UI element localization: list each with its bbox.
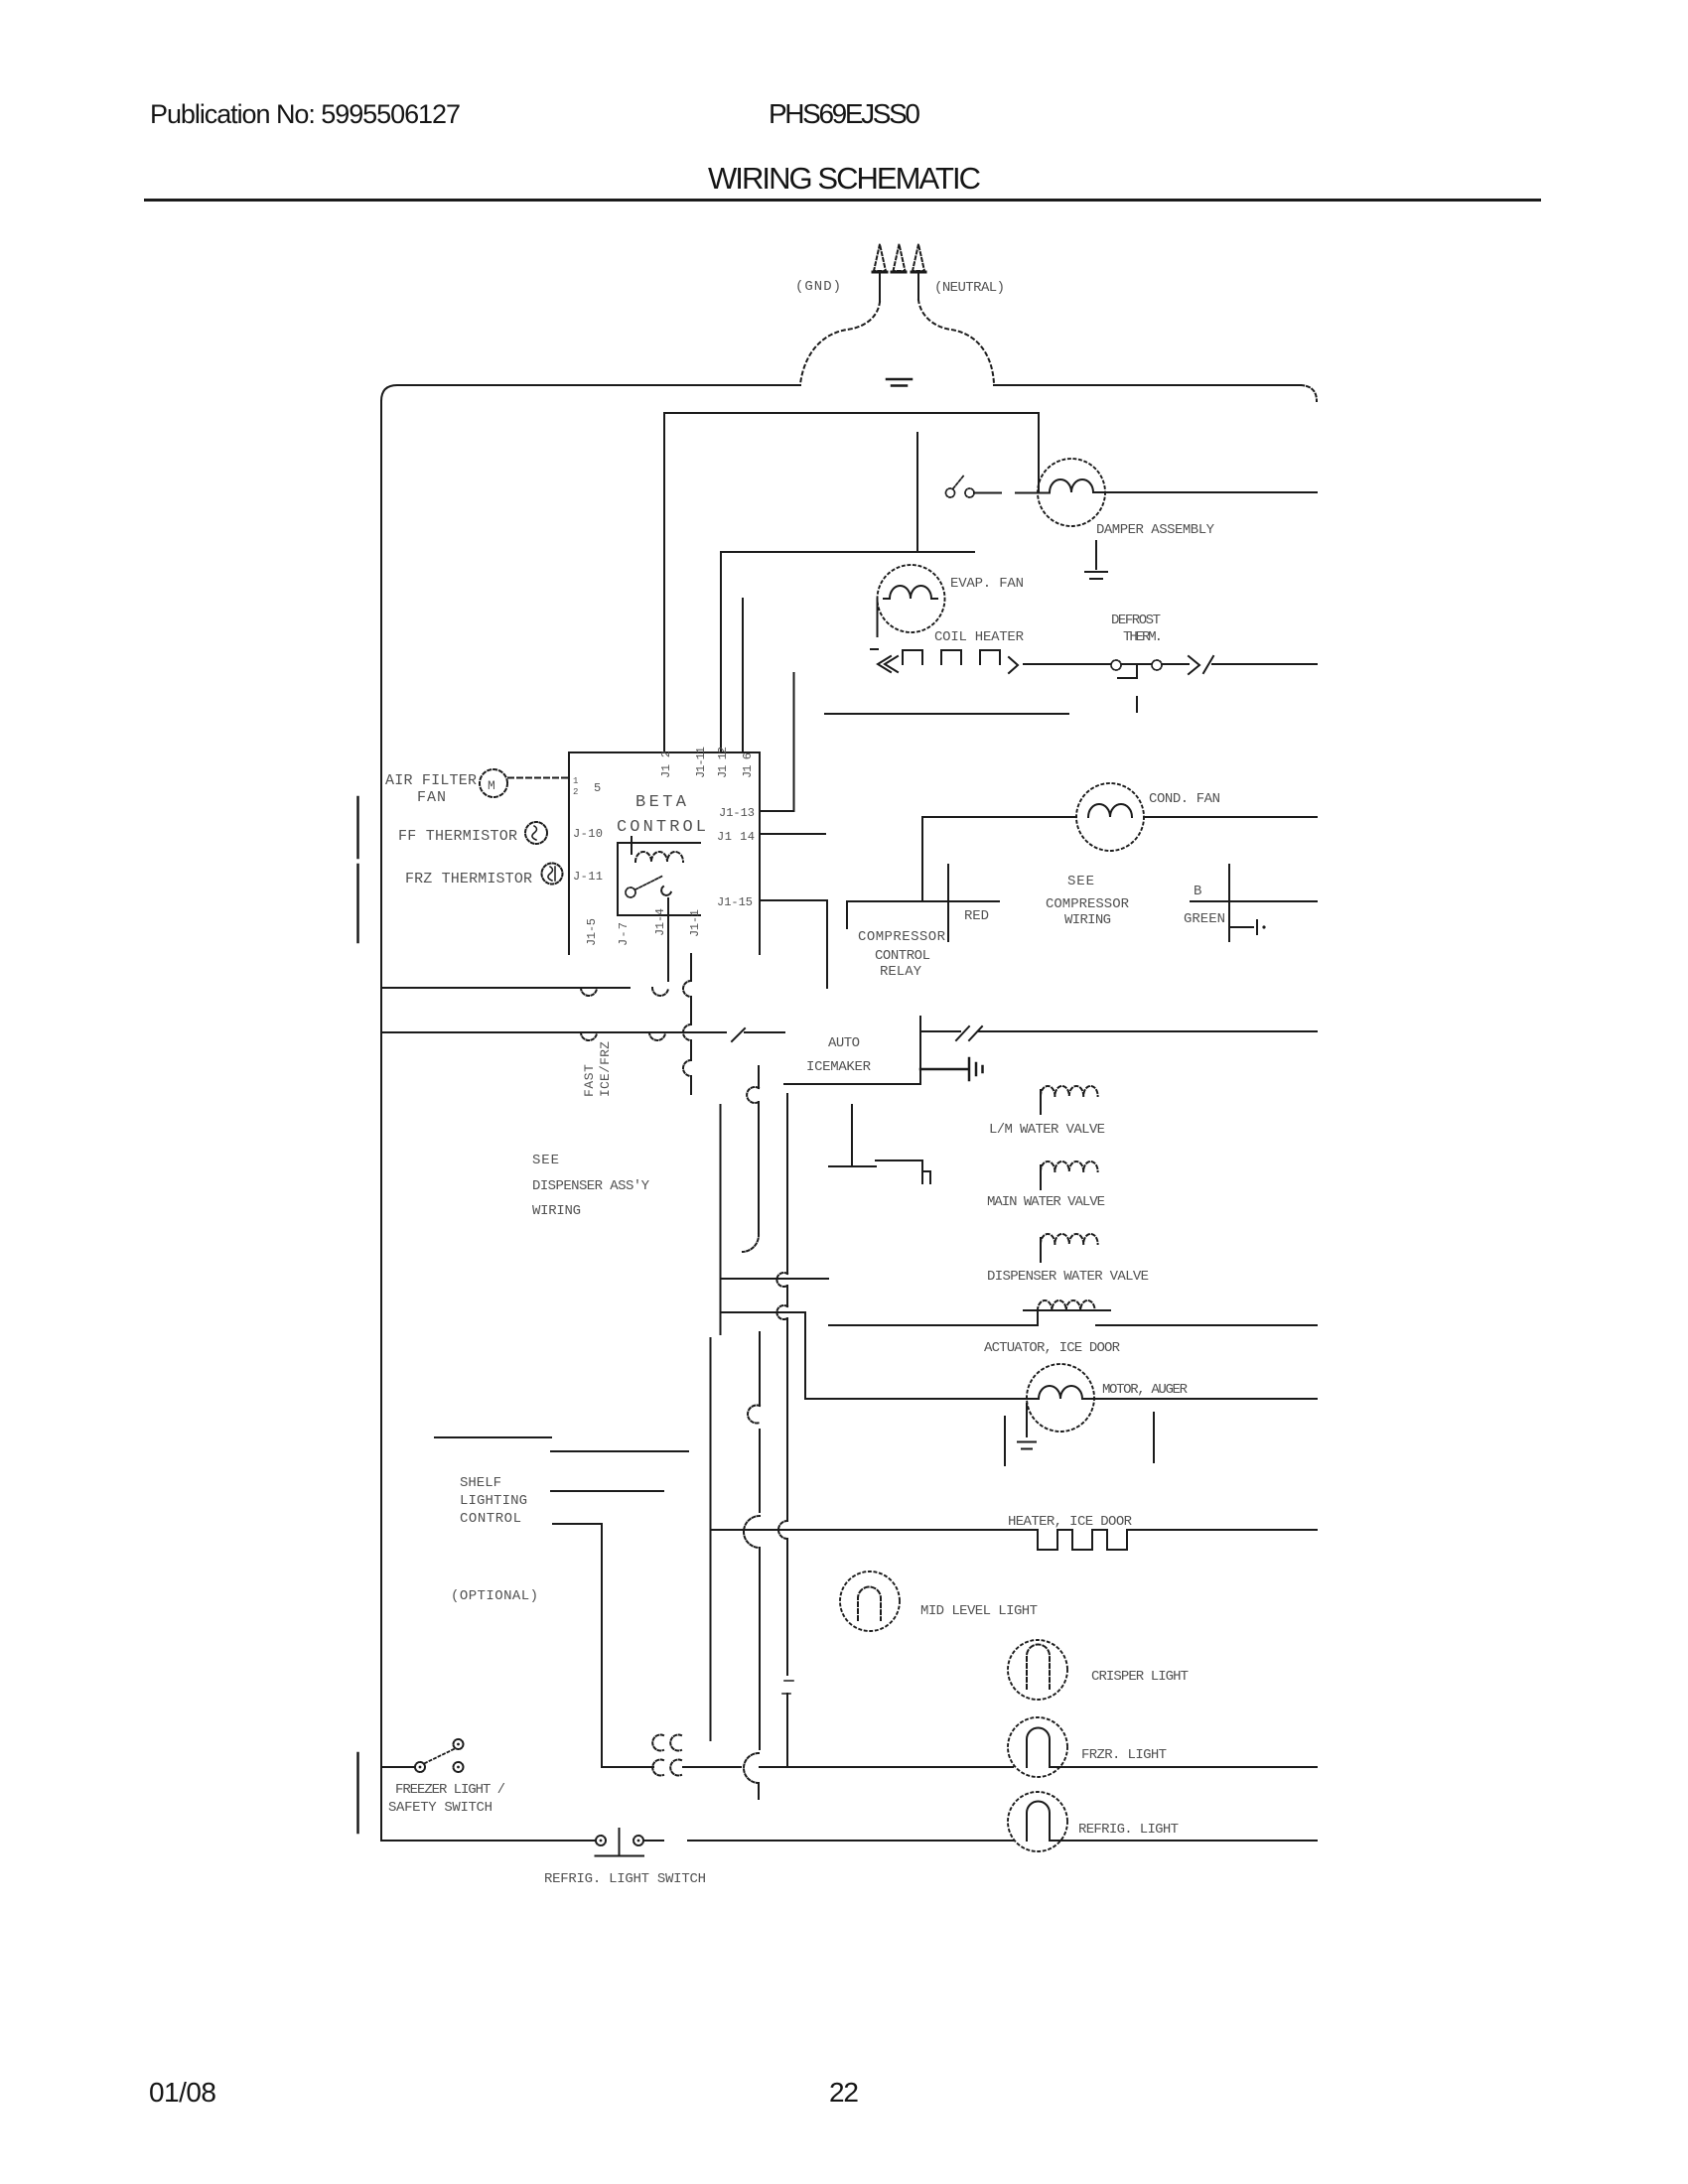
wire cond fan to right edge bbox=[1144, 816, 1317, 818]
svg-text:J1 2: J1 2 bbox=[659, 751, 673, 778]
svg-text:MID LEVEL LIGHT: MID LEVEL LIGHT bbox=[920, 1603, 1038, 1619]
svg-text:FREEZER LIGHT /: FREEZER LIGHT / bbox=[395, 1782, 505, 1798]
wire drop to BETA J1-6 bbox=[742, 599, 744, 752]
svg-text:BETA: BETA bbox=[635, 793, 687, 812]
svg-text:AIR FILTER: AIR FILTER bbox=[385, 772, 477, 789]
svg-text:CRISPER LIGHT: CRISPER LIGHT bbox=[1091, 1669, 1189, 1685]
motor auger (dotted circle + coil) bbox=[1027, 1364, 1094, 1432]
wire auger flank stubs bbox=[1005, 1413, 1154, 1465]
ground motor auger bbox=[1018, 1404, 1036, 1449]
power plug prong center bbox=[894, 244, 906, 271]
motor damper assembly (dotted circle + coil) bbox=[1038, 459, 1105, 526]
svg-text:ACTUATOR, ICE DOOR: ACTUATOR, ICE DOOR bbox=[984, 1340, 1121, 1356]
wire evap fan lead bbox=[877, 599, 879, 636]
svg-text:J1-4: J1-4 bbox=[653, 908, 667, 936]
wire cond fan feed bbox=[922, 816, 1076, 818]
svg-text:J1 12: J1 12 bbox=[716, 747, 730, 778]
wire outer box top edge left of plug bbox=[381, 385, 800, 401]
wire auger row bbox=[805, 1398, 1317, 1400]
node connector arcs x666-684 bbox=[652, 1735, 681, 1751]
wire actuator row y1335 bbox=[829, 1324, 1317, 1326]
svg-text:WIRING: WIRING bbox=[1064, 912, 1111, 928]
lamp crisper light bbox=[1008, 1640, 1067, 1700]
wire plug cord left (dashed) bbox=[800, 302, 880, 384]
svg-text:ICE/FRZ: ICE/FRZ bbox=[598, 1041, 613, 1097]
node connector arcs on rail 1 bbox=[581, 988, 597, 996]
wire bus riser x764 upper bbox=[758, 1066, 760, 1234]
svg-text:J1-15: J1-15 bbox=[717, 895, 753, 909]
svg-text:DISPENSER ASS'Y: DISPENSER ASS'Y bbox=[532, 1178, 650, 1194]
wire icemaker bottom bbox=[784, 1083, 920, 1085]
wire BETA J1-14 bbox=[760, 833, 825, 835]
wire bus riser x765 mid bbox=[759, 1332, 761, 1749]
svg-text:J-10: J-10 bbox=[573, 827, 603, 841]
svg-text:(NEUTRAL): (NEUTRAL) bbox=[934, 280, 1005, 296]
wire bus riser x725 with taps bbox=[720, 1105, 722, 1334]
svg-text:J1 14: J1 14 bbox=[717, 830, 755, 844]
wire plug right lead bbox=[917, 274, 919, 300]
svg-text:FAN: FAN bbox=[417, 789, 446, 806]
switch freezer light safety bbox=[381, 1766, 414, 1768]
svg-text:COMPRESSOR: COMPRESSOR bbox=[1046, 896, 1130, 912]
svg-text:HEATER, ICE DOOR: HEATER, ICE DOOR bbox=[1008, 1514, 1133, 1530]
svg-text:RED: RED bbox=[964, 908, 989, 924]
wire BETA J1-15 bbox=[760, 900, 827, 988]
wire plug left lead bbox=[879, 274, 881, 302]
wire rail 1 y995 bbox=[381, 987, 630, 989]
wire bus riser x715 lower bbox=[710, 1338, 712, 1740]
svg-text:AUTO: AUTO bbox=[828, 1035, 860, 1051]
wire through actuator coil bbox=[1024, 1309, 1110, 1311]
svg-text:DISPENSER WATER VALVE: DISPENSER WATER VALVE bbox=[987, 1269, 1149, 1285]
wire rail A horizontal y416 bbox=[664, 412, 1039, 414]
switch relay contact bbox=[626, 887, 635, 897]
power plug prong GND (dashed triangle) bbox=[874, 244, 886, 271]
svg-text:J1 6: J1 6 bbox=[741, 752, 755, 778]
svg-text:REFRIG. LIGHT: REFRIG. LIGHT bbox=[1078, 1822, 1179, 1838]
svg-text:J1-5: J1-5 bbox=[585, 918, 599, 946]
svg-text:CONTROL: CONTROL bbox=[875, 948, 930, 964]
icemaker auto block bbox=[919, 1017, 921, 1084]
lamp refrigerator light bbox=[1008, 1792, 1067, 1851]
wire tap y1322 to auger feed bbox=[721, 1312, 806, 1399]
svg-text:DAMPER ASSEMBLY: DAMPER ASSEMBLY bbox=[1096, 522, 1215, 538]
node connector arcs on rail 2 bbox=[581, 1032, 597, 1040]
ground symbol at plug bbox=[887, 379, 912, 386]
svg-text:(OPTIONAL): (OPTIONAL) bbox=[451, 1588, 538, 1604]
svg-text:MOTOR, AUGER: MOTOR, AUGER bbox=[1102, 1382, 1189, 1398]
header rule bbox=[144, 199, 1541, 202]
thermistor FF (dashed circle) bbox=[525, 822, 547, 844]
solenoid actuator ice door (dashed coil) bbox=[1038, 1300, 1095, 1310]
wire freezer light row y1780 bbox=[602, 1766, 1317, 1768]
wire BETA J1-1 drop with connector hops bbox=[690, 954, 692, 1094]
switch defrost thermostat bbox=[1111, 660, 1121, 670]
svg-text:2: 2 bbox=[573, 787, 578, 797]
svg-text:COMPRESSOR: COMPRESSOR bbox=[858, 929, 946, 945]
wire heater to defrost thermostat bbox=[1024, 663, 1110, 665]
wire rail A right drop to damper bbox=[1038, 413, 1040, 492]
switch break on rail 2 bbox=[732, 1028, 745, 1041]
thermistor FRZ (dashed circle) bbox=[542, 864, 563, 885]
margin tick marks left bbox=[356, 797, 359, 1833]
svg-text:EVAP. FAN: EVAP. FAN bbox=[950, 576, 1024, 592]
svg-text:COIL HEATER: COIL HEATER bbox=[934, 629, 1025, 645]
motor condenser fan (dotted circle + coil) bbox=[1076, 783, 1144, 851]
svg-text:COND. FAN: COND. FAN bbox=[1149, 791, 1220, 807]
wire bus riser x793 with hop arcs bbox=[786, 1094, 788, 1767]
svg-text:REFRIG. LIGHT SWITCH: REFRIG. LIGHT SWITCH bbox=[544, 1871, 706, 1887]
wire heater return segment bbox=[825, 713, 1068, 715]
wire switch to damper bbox=[974, 492, 1050, 494]
wire outer box top edge right of plug bbox=[994, 384, 1301, 386]
svg-text:FRZR. LIGHT: FRZR. LIGHT bbox=[1081, 1747, 1167, 1763]
svg-text:SHELF: SHELF bbox=[460, 1475, 501, 1491]
svg-text:L/M WATER VALVE: L/M WATER VALVE bbox=[989, 1122, 1105, 1138]
svg-text:J1-1: J1-1 bbox=[688, 909, 702, 937]
svg-text:Publication No: 5995506127: Publication No: 5995506127 bbox=[150, 99, 461, 129]
svg-text:(GND): (GND) bbox=[795, 279, 841, 295]
wire compressor green jumper bbox=[1191, 865, 1317, 941]
svg-text:1: 1 bbox=[573, 776, 578, 786]
icemaker tee symbol bbox=[829, 1105, 876, 1166]
wire rail B horizontal y556 bbox=[721, 551, 974, 553]
heater ice door element bbox=[711, 1530, 1318, 1550]
icemaker step bracket bbox=[876, 1160, 930, 1183]
svg-text:PHS69EJSS0: PHS69EJSS0 bbox=[769, 98, 920, 129]
svg-text:DEFROST: DEFROST bbox=[1111, 613, 1161, 628]
svg-text:SAFETY SWITCH: SAFETY SWITCH bbox=[388, 1800, 492, 1816]
svg-text:5: 5 bbox=[594, 781, 601, 795]
power plug prong NEUTRAL bbox=[913, 244, 924, 271]
wire plug cord right (dashed) bbox=[918, 300, 994, 384]
wire stub vertical x924 bbox=[916, 433, 918, 552]
svg-text:J-7: J-7 bbox=[617, 922, 631, 946]
coil relay (dashed loops) bbox=[635, 852, 683, 862]
svg-text:22: 22 bbox=[829, 2077, 859, 2108]
svg-text:CONTROL: CONTROL bbox=[460, 1511, 521, 1527]
wire relay switch down to rail 1 bbox=[667, 898, 669, 981]
connector compressor green terminal bbox=[1229, 920, 1257, 934]
wire rail A left drop to BETA J1-2 bbox=[663, 413, 665, 752]
svg-text:FRZ THERMISTOR: FRZ THERMISTOR bbox=[405, 871, 532, 887]
wire damper to right edge bbox=[1093, 491, 1317, 493]
svg-text:FAST: FAST bbox=[582, 1064, 597, 1097]
svg-text:LIGHTING: LIGHTING bbox=[460, 1493, 527, 1509]
wire rail B drop to BETA J1-12 bbox=[720, 552, 722, 752]
svg-text:J-11: J-11 bbox=[573, 870, 603, 884]
svg-text:THERM.: THERM. bbox=[1123, 629, 1163, 645]
wire compressor rail corner bbox=[921, 818, 923, 900]
svg-text:SEE: SEE bbox=[1067, 874, 1094, 889]
wire tap y1288 bbox=[721, 1278, 829, 1280]
wire thermostat to right edge with connector arrows bbox=[1162, 656, 1317, 674]
svg-text:WIRING: WIRING bbox=[532, 1203, 581, 1219]
svg-text:GREEN: GREEN bbox=[1184, 911, 1225, 927]
svg-text:WIRING SCHEMATIC: WIRING SCHEMATIC bbox=[708, 161, 981, 196]
wire air filter fan to BETA (dashed) bbox=[508, 777, 569, 779]
svg-text:RELAY: RELAY bbox=[880, 964, 922, 980]
switch refrigerator light bbox=[381, 1840, 596, 1842]
svg-text:MAIN WATER VALVE: MAIN WATER VALVE bbox=[987, 1194, 1105, 1210]
svg-text:J1-13: J1-13 bbox=[719, 806, 755, 820]
solenoid dispenser water valve (dashed coil) bbox=[1041, 1234, 1098, 1244]
svg-text:B: B bbox=[1194, 884, 1201, 899]
switch damper (contacts) bbox=[946, 488, 955, 497]
shelf lighting control terminals bbox=[435, 1436, 551, 1438]
ground damper assembly bbox=[1085, 541, 1107, 579]
ground icemaker bbox=[920, 1058, 983, 1080]
heater defrost coil element bbox=[871, 648, 878, 650]
wire outer box left edge bbox=[380, 401, 382, 1841]
svg-text:01/08: 01/08 bbox=[149, 2077, 216, 2108]
box BETA CONTROL outline bbox=[569, 752, 760, 954]
wire actuator lead bbox=[1037, 1310, 1039, 1325]
wire compressor rail y908 bbox=[847, 901, 999, 928]
motor evaporator fan (dotted circle + coil) bbox=[878, 565, 945, 632]
relay compressor control (box inside BETA) bbox=[618, 843, 700, 915]
wire rail 2 y1040 bbox=[381, 1031, 726, 1033]
svg-text:FF THERMISTOR: FF THERMISTOR bbox=[398, 828, 517, 845]
svg-text:M: M bbox=[488, 778, 495, 793]
wire BETA J1-13 bbox=[760, 673, 794, 811]
wire relay coil feed x955 bbox=[947, 865, 949, 941]
lamp freezer light bbox=[1008, 1717, 1067, 1777]
solenoid L/M water valve (dashed coil) bbox=[1041, 1086, 1098, 1096]
svg-text:CONTROL: CONTROL bbox=[617, 818, 706, 837]
svg-text:J1-11: J1-11 bbox=[694, 747, 708, 778]
svg-text:SEE: SEE bbox=[532, 1153, 559, 1168]
svg-text:ICEMAKER: ICEMAKER bbox=[806, 1059, 872, 1075]
solenoid main water valve (dashed coil) bbox=[1041, 1161, 1098, 1171]
lamp mid level light bbox=[840, 1571, 900, 1631]
motor air filter fan (dashed circle) bbox=[480, 769, 507, 797]
